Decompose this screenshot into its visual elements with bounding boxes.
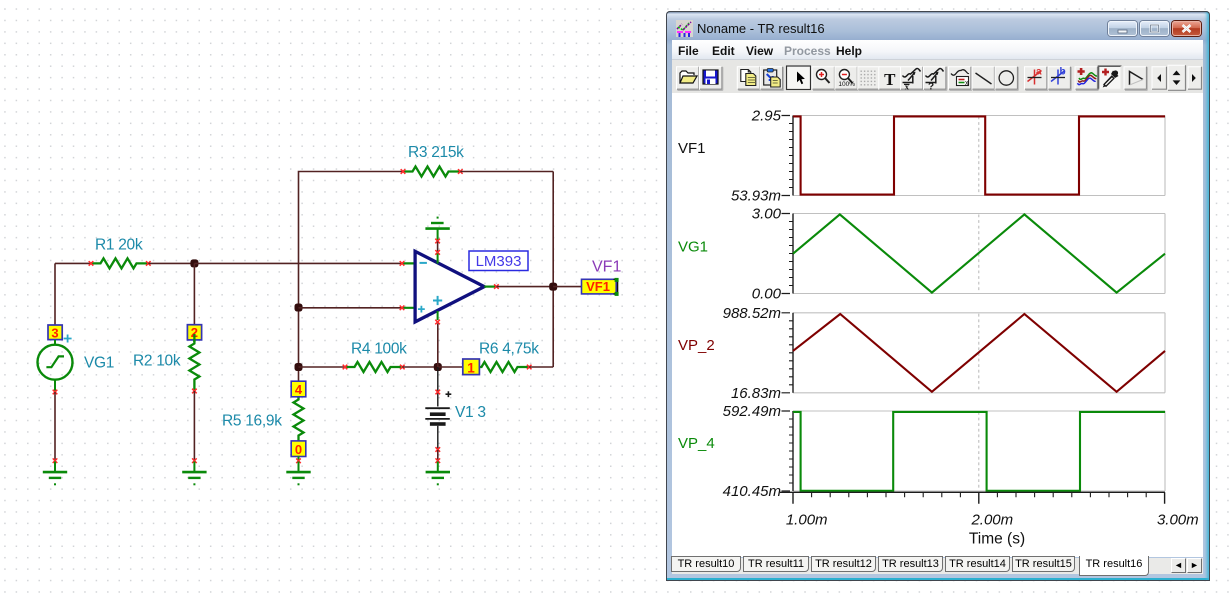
plot 1 frame (VF1): [782, 116, 1166, 196]
power rail VCC above op-amp: [425, 217, 449, 244]
toolbar button: piecewise line: [1124, 66, 1148, 90]
plots SVG: [672, 93, 1203, 557]
wire R4 left: [299, 366, 346, 368]
svg-text:VP_4: VP_4: [678, 435, 715, 452]
battery V1: [425, 367, 451, 452]
svg-text:T: T: [884, 70, 896, 89]
trace VF1 square wave: [793, 116, 1165, 194]
toolbar button: zoom in: [812, 66, 836, 90]
svg-text:R6 4,75k: R6 4,75k: [479, 341, 539, 358]
wire R3 to right vertical: [460, 171, 553, 173]
wire R2 vertical: [193, 263, 195, 325]
resistor R1: [89, 258, 151, 268]
toolbar button: grid (disabled): [857, 66, 881, 90]
toolbar button: text T: [878, 66, 902, 90]
pin VF1: [582, 278, 619, 296]
wire VG1 to ground: [54, 392, 56, 461]
svg-text:VF1: VF1: [678, 140, 706, 157]
toolbar button: cursor x-bar: [900, 66, 924, 91]
wire right vertical: [552, 172, 554, 368]
svg-text:b: b: [1060, 67, 1066, 78]
wire battery to ground: [437, 450, 439, 461]
toolbar button: paste: [760, 66, 784, 90]
trace VP_2 triangle wave: [793, 314, 1165, 392]
wire node to op-amp noninverting input: [299, 307, 403, 309]
ground at VG1: [43, 458, 67, 485]
svg-text:100%: 100%: [838, 81, 855, 88]
svg-text:R4 100k: R4 100k: [351, 341, 407, 358]
plus mark VG1: [64, 335, 72, 343]
wire R6 to right vertical: [529, 366, 553, 368]
svg-text:R5 16,9k: R5 16,9k: [222, 413, 282, 430]
ground at V1: [426, 458, 450, 485]
svg-text:0.00: 0.00: [752, 286, 782, 303]
toolbar button: spinner up/down: [1168, 65, 1186, 91]
plot 4 frame (VP_4): [782, 411, 1166, 491]
svg-text:R2 10k: R2 10k: [133, 353, 181, 370]
resistor R5: [294, 390, 304, 447]
svg-text:1.00m: 1.00m: [786, 512, 828, 529]
svg-text:410.45m: 410.45m: [723, 483, 781, 500]
svg-text:16.83m: 16.83m: [731, 385, 781, 402]
svg-text:x: x: [905, 81, 910, 91]
wire R1 to node: [148, 262, 194, 264]
wire R1 left: [55, 262, 91, 264]
toolbar button: select arrow (active frame): [786, 65, 812, 91]
title icon: [676, 20, 693, 37]
svg-text:VP_2: VP_2: [678, 337, 715, 354]
svg-text:VF1: VF1: [586, 279, 610, 294]
svg-text:2.00m: 2.00m: [970, 512, 1013, 529]
svg-text:592.49m: 592.49m: [723, 403, 781, 420]
toolbar button: page left: [1152, 66, 1167, 90]
svg-text:4: 4: [295, 382, 303, 397]
junction output node: [549, 283, 557, 291]
toolbar button: open: [676, 66, 700, 90]
svg-text:3: 3: [51, 326, 58, 341]
voltage generator VG1: [38, 340, 73, 392]
pin x VG1 bottom: [53, 390, 58, 395]
toolbar button: cursor ?: [923, 66, 947, 92]
junction node at R1/R2: [190, 259, 198, 267]
node label 1: [463, 359, 480, 375]
pin x op-amp top: [435, 250, 440, 255]
wire R2 to ground: [193, 391, 195, 461]
tabs: [672, 558, 1203, 574]
svg-text:R3 215k: R3 215k: [408, 144, 464, 161]
svg-text:53.93m: 53.93m: [731, 188, 781, 205]
node label 2: [187, 325, 201, 341]
op-amp U1 comparator LM393: [400, 251, 499, 324]
svg-text:Time (s): Time (s): [969, 531, 1025, 548]
svg-text:0: 0: [295, 442, 302, 457]
toolbar icons drawn in svg: [672, 60, 1203, 93]
svg-text:?: ?: [928, 81, 934, 92]
wire VCC to op-amp: [437, 242, 439, 252]
svg-text:2.95: 2.95: [751, 108, 782, 125]
plot 3 frame (VP_2): [782, 313, 1166, 393]
toolbar button: copy: [737, 66, 761, 90]
svg-text:LM393: LM393: [476, 253, 522, 270]
wire op-amp output to node: [496, 286, 553, 288]
plot 2 frame (VG1): [782, 214, 1166, 294]
toolbar button: zoom 100%: [834, 66, 858, 90]
svg-text:x: x: [965, 80, 969, 87]
node label 4: [291, 381, 306, 397]
toolbar button: waves: [1075, 66, 1099, 90]
wire R4 to center node: [402, 366, 438, 368]
wire left feedback vertical: [299, 172, 404, 382]
trace VG1 triangle wave: [793, 214, 1165, 292]
time axis: [780, 492, 1165, 504]
wire VG1 top vertical: [54, 263, 56, 325]
svg-text:R1 20k: R1 20k: [95, 237, 143, 254]
svg-text:3.00m: 3.00m: [1157, 512, 1199, 529]
junction noninverting node: [295, 304, 303, 312]
wire center node to node label 1: [438, 366, 464, 368]
svg-text:V1 3: V1 3: [455, 404, 486, 421]
label LM393: [469, 251, 528, 271]
svg-text:3.00: 3.00: [752, 206, 782, 223]
svg-text:a: a: [1036, 67, 1042, 78]
resistor R3: [401, 167, 463, 177]
svg-text:1: 1: [467, 360, 475, 375]
svg-text:988.52m: 988.52m: [723, 305, 781, 322]
junction R4 left node: [295, 363, 303, 371]
toolbar button: probe (pressed): [1099, 66, 1122, 90]
junction center node: [434, 363, 442, 371]
wire op-amp bottom pin to center node: [437, 324, 439, 368]
wire node to op-amp inverting input: [194, 262, 402, 264]
resistor R2: [189, 334, 199, 393]
toolbar button: legend: [948, 66, 972, 90]
toolbar button: a cursor: [1024, 66, 1048, 90]
node label 0: [291, 441, 306, 457]
ground at R5: [286, 457, 310, 486]
toolbar button: circle: [995, 66, 1019, 90]
toolbar button: page right: [1188, 66, 1202, 90]
svg-text:VG1: VG1: [678, 239, 708, 256]
node label 3: [48, 325, 62, 341]
ground at R2: [182, 458, 206, 485]
resistor R4: [343, 362, 405, 372]
TR result window: [666, 11, 1210, 581]
toolbar button: save: [699, 66, 723, 90]
svg-text:VG1: VG1: [84, 355, 114, 372]
toolbar button: b cursor: [1048, 66, 1072, 90]
resistor R6: [472, 362, 532, 372]
svg-text:VF1: VF1: [592, 259, 621, 276]
trace VP_4 square wave: [793, 412, 1165, 491]
toolbar button: line: [972, 66, 996, 90]
wire node to VF1 pin: [553, 286, 581, 288]
